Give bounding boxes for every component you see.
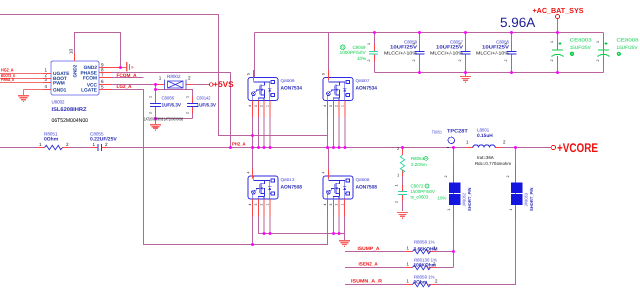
wire VCC row to R8002 — [99, 84, 164, 86]
svg-text:GND2: GND2 — [84, 65, 98, 71]
svg-text:AON7508: AON7508 — [281, 184, 303, 190]
svg-text:1: 1 — [596, 41, 600, 43]
svg-text:1: 1 — [509, 209, 513, 211]
svg-text:2: 2 — [367, 60, 371, 62]
svg-text:1: 1 — [265, 105, 269, 107]
wire FCOM_A stub — [99, 77, 144, 79]
svg-text:Q8009: Q8009 — [281, 78, 295, 83]
wire BOOT2_A — [0, 78, 51, 80]
inductor L8001 — [473, 145, 495, 148]
svg-text:0Ohm: 0Ohm — [414, 280, 428, 286]
red component pin stubs — [38, 43, 604, 285]
wire ISUMP_A row — [345, 251, 454, 253]
svg-text:SHORT_PIN: SHORT_PIN — [529, 188, 534, 211]
svg-text:AON7534: AON7534 — [281, 85, 303, 91]
wire GND1 pin4 to ground — [24, 90, 52, 96]
wire +AC_BAT_SYS top rail — [255, 32, 604, 34]
svg-text:1AT200000068: 1AT200000068 — [164, 117, 184, 122]
wire ISEN2_A row — [345, 267, 454, 269]
svg-text:R8058 1%: R8058 1% — [414, 240, 435, 245]
svg-text:L8001: L8001 — [477, 128, 490, 133]
svg-text:1: 1 — [458, 43, 462, 45]
svg-text:1: 1 — [93, 142, 96, 147]
wire top border net from left edge down to PH2 area — [0, 15, 328, 136]
svg-text:AON7534: AON7534 — [356, 85, 378, 91]
svg-text:PH2_A: PH2_A — [232, 141, 246, 146]
svg-text:2: 2 — [105, 142, 108, 147]
svg-text:1: 1 — [149, 96, 153, 98]
svg-text:2: 2 — [506, 176, 510, 178]
svg-text:5: 5 — [101, 85, 104, 90]
capacitor CE8008 polarized — [598, 42, 610, 57]
svg-text:ISUMN_A_R: ISUMN_A_R — [351, 279, 383, 285]
power port +5VS — [210, 83, 214, 87]
capacitor C8066 — [150, 104, 161, 107]
svg-text:2: 2 — [334, 105, 338, 107]
svg-text:FCOM: FCOM — [83, 76, 97, 82]
svg-text:T8051: T8051 — [432, 130, 443, 135]
wire Q8007 source columns to PH2 rail — [328, 117, 346, 148]
ground under low side FETs — [339, 241, 350, 247]
svg-text:1: 1 — [504, 43, 508, 45]
transistor Q8009 — [248, 78, 278, 101]
capacitor C8057 — [461, 51, 471, 54]
capacitor C8056 — [507, 51, 517, 54]
wire VCC cap branch vertical x155 — [155, 85, 157, 104]
svg-text:1AT200000068: 1AT200000068 — [144, 117, 164, 122]
resistor R8058 — [413, 249, 431, 253]
svg-text:R8002: R8002 — [167, 74, 181, 79]
svg-text:10%: 10% — [438, 196, 447, 201]
svg-text:0.15uH: 0.15uH — [477, 133, 493, 139]
IC pin stubs red — [43, 53, 119, 90]
ground sideways at pin9 — [123, 62, 135, 72]
resistor R8059 — [413, 282, 431, 286]
svg-text:2: 2 — [412, 60, 416, 62]
wire low side source ground run — [259, 217, 345, 241]
svg-text:Q8013: Q8013 — [281, 177, 295, 182]
svg-text:AON7508: AON7508 — [356, 184, 378, 190]
svg-text:U8002: U8002 — [52, 100, 65, 105]
resistor R8051 — [45, 145, 63, 149]
svg-text:CE8003: CE8003 — [570, 38, 592, 43]
transistor Q8007 — [323, 78, 353, 101]
svg-text:2: 2 — [444, 176, 448, 178]
svg-text:2.2Ohm: 2.2Ohm — [411, 162, 427, 167]
wire cap bottoms to ground — [156, 107, 193, 124]
svg-text:GND2: GND2 — [73, 64, 78, 77]
svg-text:10: 10 — [69, 48, 74, 54]
svg-text:MLCC/+/-10%: MLCC/+/-10% — [476, 50, 509, 55]
wire Q8013 gate pin to bottom run — [252, 217, 254, 245]
svg-text:MLCC/+/-10%: MLCC/+/-10% — [430, 50, 463, 55]
power port +VCORE — [551, 145, 555, 149]
svg-text:5.96A: 5.96A — [500, 15, 535, 30]
svg-text:2: 2 — [66, 142, 69, 147]
capacitor C8055 — [98, 144, 102, 151]
wire LG2_A run down and across bottom — [99, 90, 328, 245]
svg-text:0Ohm: 0Ohm — [44, 137, 59, 143]
ground under C8072 — [397, 213, 408, 219]
svg-text:GND1: GND1 — [53, 87, 67, 93]
svg-text:1: 1 — [39, 142, 42, 147]
op IC U8002 body — [51, 61, 99, 95]
wire R8002 pin2 to +5VS — [187, 84, 210, 86]
resistor R80130 — [413, 265, 431, 269]
wire +AC_BAT_SYS port drop — [557, 19, 559, 33]
svg-text:10%: 10% — [357, 56, 366, 61]
wire C8059 column — [374, 33, 376, 73]
wire PWM2_A — [0, 82, 51, 84]
svg-text:3: 3 — [44, 77, 47, 82]
wire cap top rail C8066 C80142 — [156, 90, 193, 104]
svg-text:5: 5 — [322, 73, 326, 75]
svg-text:+VCORE: +VCORE — [557, 141, 598, 155]
svg-text:1000PF/50V: 1000PF/50V — [340, 50, 367, 55]
svg-text:FCOM_A: FCOM_A — [117, 73, 137, 79]
ground under C8066 — [150, 125, 161, 131]
resistor R8054 — [400, 155, 404, 173]
svg-text:R8059 1%: R8059 1% — [414, 275, 435, 280]
wire C8056 column — [511, 33, 513, 73]
svg-text:MLCC/+/-10%: MLCC/+/-10% — [384, 50, 417, 55]
svg-text:1: 1 — [159, 76, 162, 81]
svg-text:06T52M004N00: 06T52M004N00 — [52, 118, 89, 124]
resistor R8002 — [165, 80, 187, 90]
svg-text:1: 1 — [412, 43, 416, 45]
wire Q8009 source columns to PH2 rail — [253, 117, 271, 148]
svg-text:1: 1 — [447, 209, 451, 211]
wire HG2_A — [0, 73, 51, 75]
svg-text:1: 1 — [395, 185, 399, 187]
svg-text:CE8008: CE8008 — [617, 38, 639, 43]
svg-text:1500PF/50V: 1500PF/50V — [411, 189, 435, 194]
svg-text:1: 1 — [367, 43, 371, 45]
svg-text:2: 2 — [458, 60, 462, 62]
wire Q8009 drain column — [254, 33, 256, 78]
svg-text:Rdc=0.7704mohm: Rdc=0.7704mohm — [475, 161, 511, 166]
svg-text:15UF/25V: 15UF/25V — [617, 45, 639, 50]
svg-text:2: 2 — [596, 60, 600, 62]
ground under cap bank — [460, 77, 471, 83]
svg-text:C8072: C8072 — [411, 184, 424, 189]
wire ISUMN_A_R row to JP8053 — [345, 206, 516, 285]
svg-text:4: 4 — [248, 204, 252, 206]
ground GND1 — [18, 96, 29, 102]
svg-text:ISUMP_A: ISUMP_A — [358, 246, 381, 252]
svg-text:+AC_BAT_SYS: +AC_BAT_SYS — [533, 6, 584, 15]
svg-text:2: 2 — [149, 112, 153, 114]
wire CE8008 column — [603, 33, 605, 73]
svg-text:C80142: C80142 — [197, 96, 211, 101]
wire CE8003 column — [557, 33, 559, 73]
svg-text:3: 3 — [254, 204, 258, 206]
svg-text:JP8053: JP8053 — [524, 192, 529, 206]
svg-text:2: 2 — [259, 204, 263, 206]
wire JP8053 top stub — [515, 148, 517, 165]
svg-text:4: 4 — [323, 204, 327, 206]
wire Q8013 drain column — [253, 148, 329, 177]
svg-text:1: 1 — [186, 96, 190, 98]
svg-text:Irat=36A: Irat=36A — [477, 155, 494, 160]
wire IC top pin10 loop to pin9 — [75, 33, 123, 68]
wire JP8052 column — [453, 148, 455, 268]
jumper JP8053 — [511, 182, 522, 193]
svg-text:LG2_A: LG2_A — [117, 84, 132, 90]
capacitor C8072 — [398, 191, 407, 194]
svg-text:2: 2 — [550, 60, 554, 62]
svg-text:1: 1 — [265, 204, 269, 206]
capacitor C8059 — [369, 51, 378, 54]
svg-text:1UF/6.3V: 1UF/6.3V — [197, 102, 217, 108]
svg-text:2: 2 — [504, 60, 508, 62]
svg-text:Q8007: Q8007 — [356, 78, 370, 83]
jumper JP8052 — [449, 182, 460, 193]
svg-text:2: 2 — [186, 112, 190, 114]
svg-text:2: 2 — [188, 76, 191, 81]
svg-text:2: 2 — [259, 105, 263, 107]
svg-text:3: 3 — [254, 105, 258, 107]
svg-text:3: 3 — [329, 105, 333, 107]
transistor Q8008 — [323, 176, 353, 199]
svg-text:+5VS: +5VS — [213, 80, 234, 89]
transistor Q8013 — [248, 176, 278, 199]
capacitor C80142 — [187, 104, 198, 107]
wire PHASE pin8 to PH2 rail — [99, 73, 231, 148]
svg-text:C8066: C8066 — [162, 96, 175, 101]
svg-text:15UF/25V: 15UF/25V — [570, 45, 592, 50]
svg-text:ISEN2_A: ISEN2_A — [359, 262, 379, 268]
capacitor CE8003 polarized — [552, 42, 564, 57]
wire PH2_A rail — [0, 147, 551, 149]
capacitor C8058 — [415, 51, 425, 54]
svg-text:R8054: R8054 — [411, 156, 424, 161]
wire ground rail under cap bank — [375, 72, 604, 74]
svg-text:2: 2 — [395, 201, 399, 203]
svg-text:4: 4 — [322, 172, 326, 174]
IC pin number labels — [44, 48, 104, 89]
svg-text:2: 2 — [334, 204, 338, 206]
svg-text:4: 4 — [44, 84, 47, 89]
svg-text:1: 1 — [550, 41, 554, 43]
svg-text:Q8008: Q8008 — [356, 177, 370, 182]
svg-text:4: 4 — [248, 105, 252, 107]
svg-text:5: 5 — [247, 73, 251, 75]
transformer T8051 TPC28T — [447, 147, 449, 149]
svg-text:TPC28T: TPC28T — [447, 129, 468, 135]
svg-text:4: 4 — [247, 172, 251, 174]
svg-text:SHORT_PIN: SHORT_PIN — [467, 188, 472, 211]
wire right edge vertical of cap bank — [603, 33, 605, 73]
svg-text:PWM: PWM — [53, 80, 65, 86]
svg-text:JP8052: JP8052 — [462, 192, 467, 206]
svg-text:4: 4 — [323, 105, 327, 107]
svg-text:1: 1 — [340, 105, 344, 107]
wire C8057 column — [465, 33, 467, 77]
svg-text:1UF/6.3V: 1UF/6.3V — [162, 102, 182, 108]
svg-text:3: 3 — [329, 204, 333, 206]
svg-text:7: 7 — [101, 73, 104, 78]
wire R8054 snubber column — [402, 148, 404, 212]
svg-text:HG2_A: HG2_A — [1, 68, 14, 73]
svg-text:6: 6 — [101, 79, 104, 84]
svg-text:PWM2_A: PWM2_A — [1, 77, 15, 82]
svg-text:LGATE: LGATE — [81, 87, 98, 93]
svg-text:ts_c0603: ts_c0603 — [411, 195, 429, 200]
svg-text:ISL6208IHRZ: ISL6208IHRZ — [52, 107, 88, 113]
power port +AC_BAT_SYS — [556, 15, 560, 19]
wire C8058 column — [419, 33, 421, 73]
svg-text:1: 1 — [340, 204, 344, 206]
wire Q8007 drain column — [328, 33, 330, 78]
